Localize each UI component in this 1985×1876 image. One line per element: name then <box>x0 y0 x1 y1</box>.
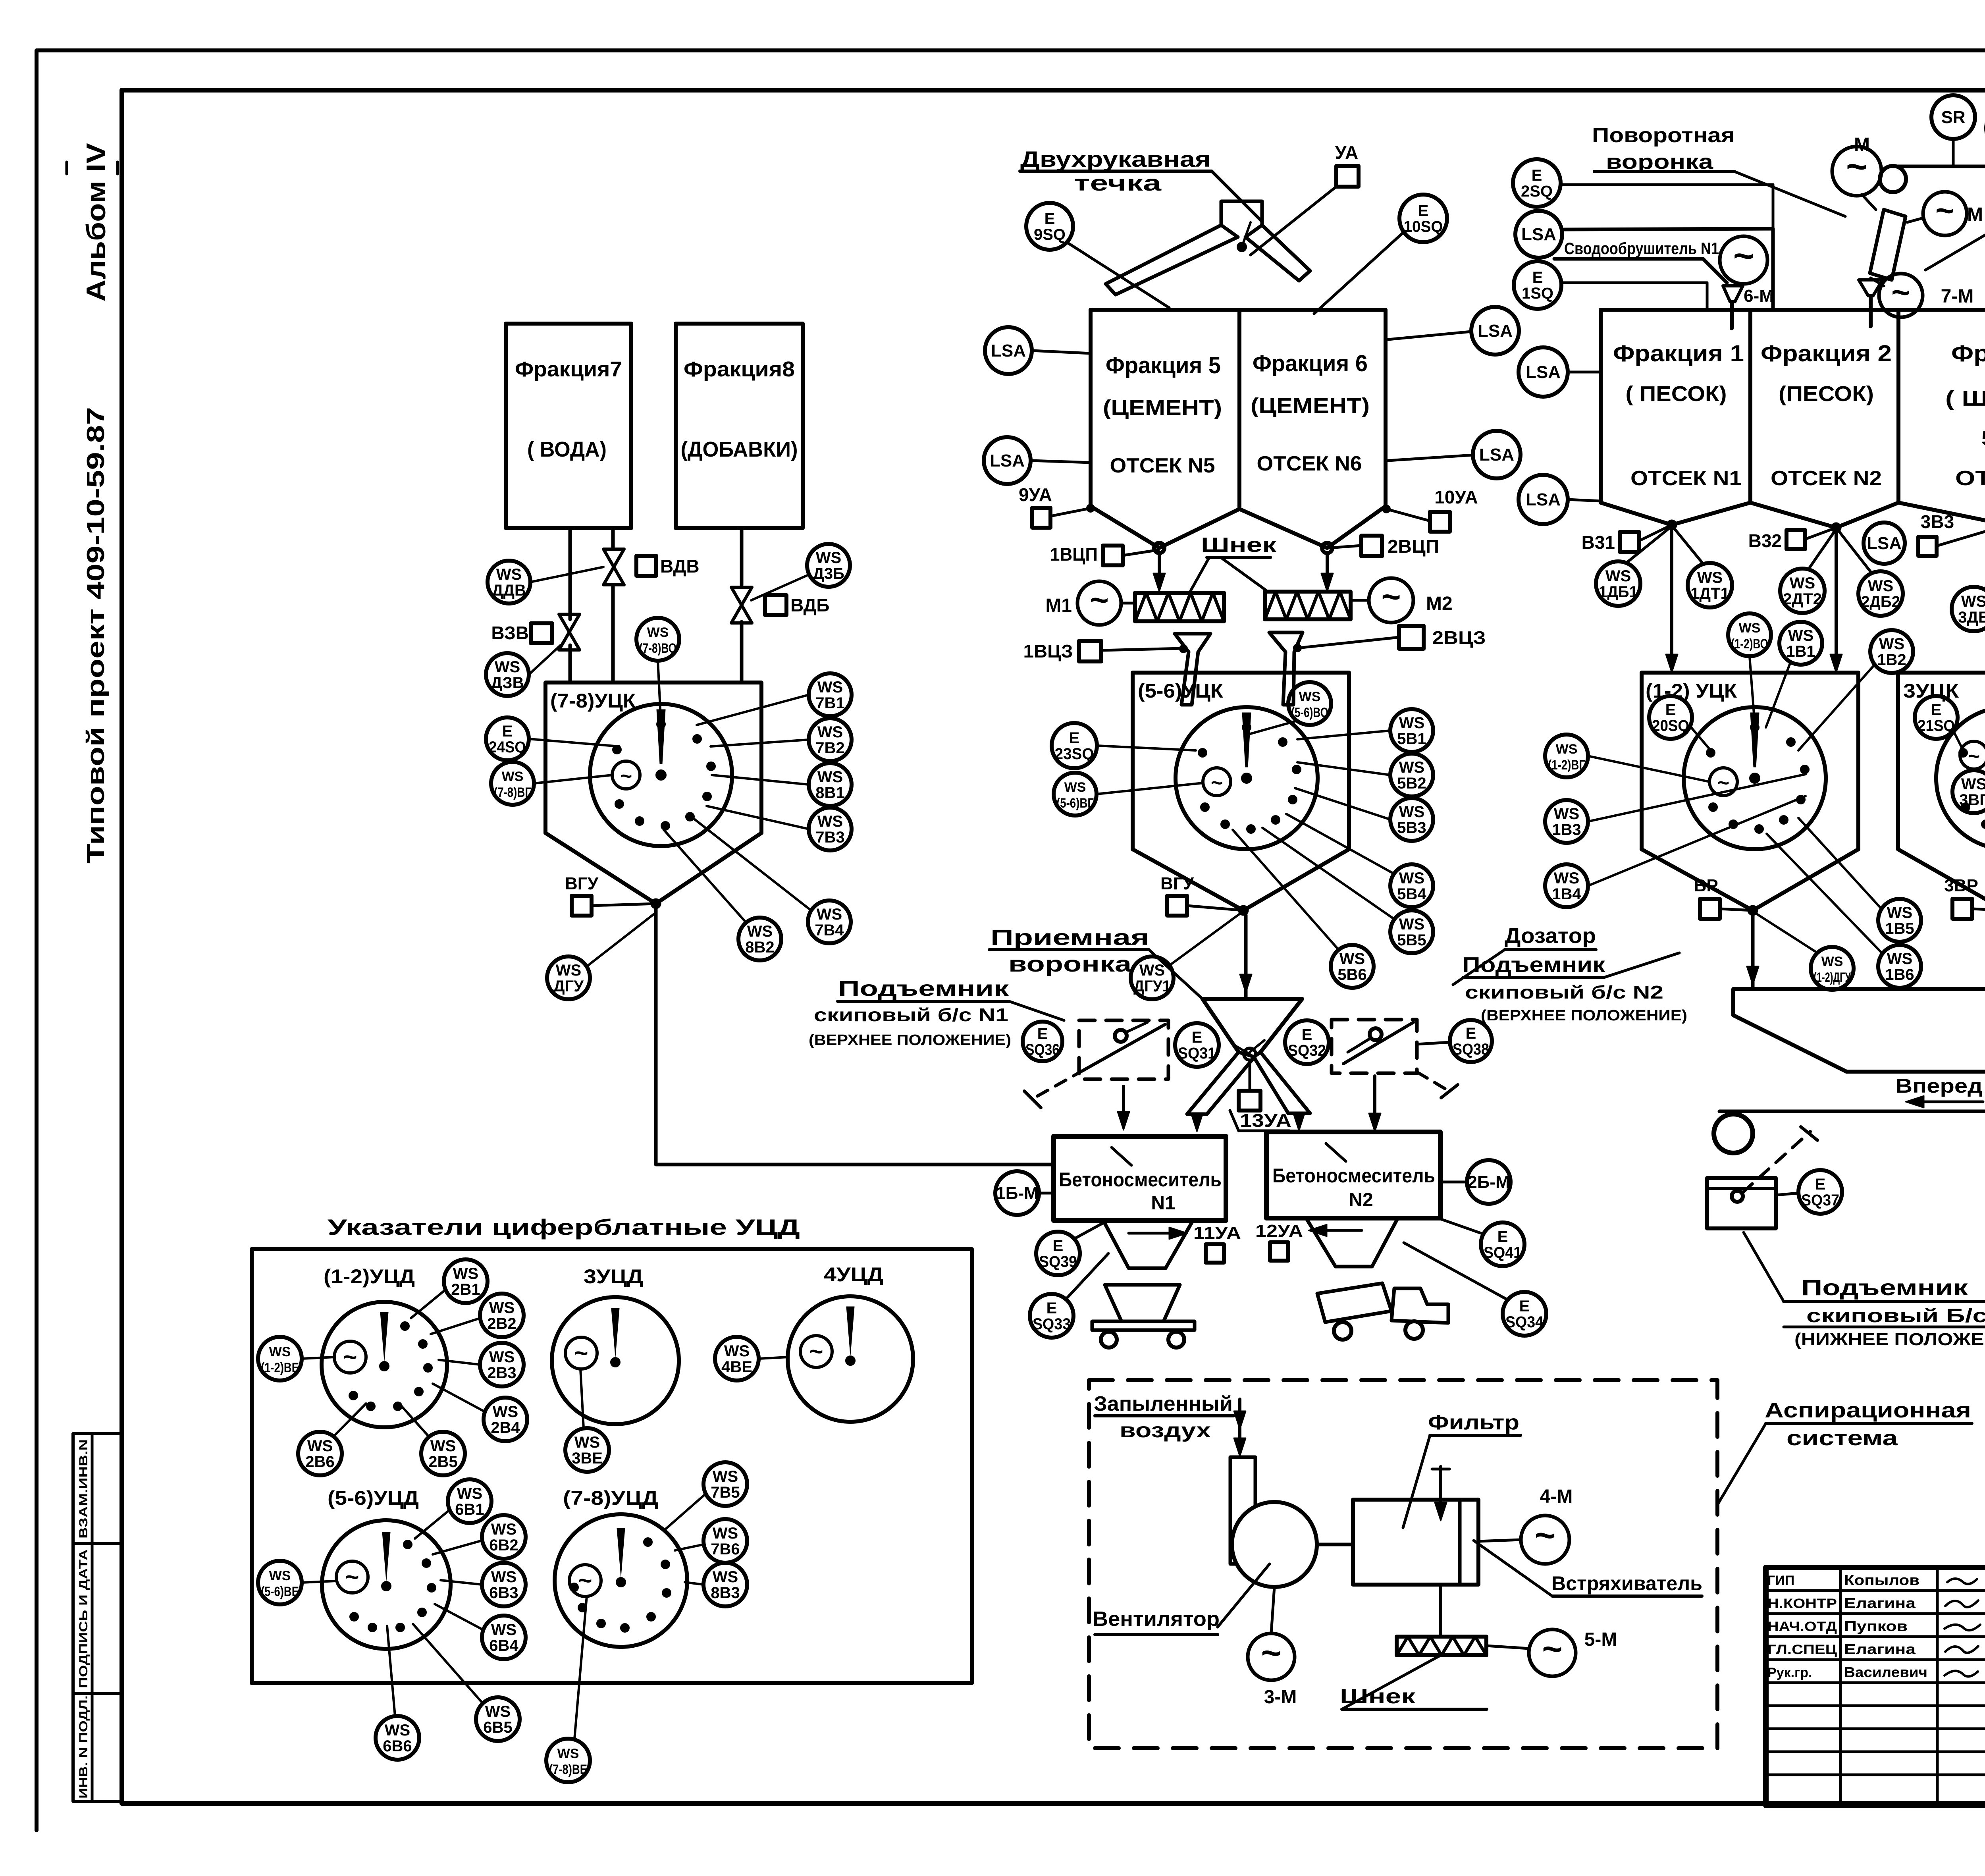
svg-text:12УА: 12УА <box>1255 1221 1303 1241</box>
box 9УА <box>1019 484 1095 528</box>
svg-text:Вентилятор: Вентилятор <box>1093 1608 1220 1631</box>
box 1ВЦЗ <box>1023 641 1183 661</box>
svg-text:ОТСЕК N3: ОТСЕК N3 <box>1955 467 1985 490</box>
svg-text:М2: М2 <box>1426 593 1453 614</box>
callout WS 2В4 <box>433 1384 527 1441</box>
callout WS 7В1 <box>697 673 852 725</box>
svg-text:воронка: воронка <box>1008 951 1132 976</box>
callout WS (1-2)ВО <box>1728 613 1771 724</box>
svg-text:Елагина: Елагина <box>1844 1641 1916 1657</box>
dusty air duct <box>1230 1399 1255 1564</box>
callout WS 2В2 <box>431 1294 524 1337</box>
motor 3-М <box>1248 1587 1297 1708</box>
callout WS 1В1 <box>1766 622 1822 727</box>
svg-text:5В3: 5В3 <box>1397 819 1426 837</box>
callout WS 1В2 <box>1798 630 1913 750</box>
label Вентилятор <box>1093 1564 1270 1635</box>
svg-text:7В3: 7В3 <box>815 829 844 846</box>
svg-text:В32: В32 <box>1748 530 1782 551</box>
svg-text:скиповый б/с N1: скиповый б/с N1 <box>814 1005 1008 1025</box>
svg-text:WS: WS <box>817 906 842 923</box>
callout WS (1-2)ДГУ <box>1756 913 1854 990</box>
svg-text:WS: WS <box>1299 689 1321 704</box>
svg-text:LSA: LSA <box>1867 534 1902 553</box>
callout WS 5В6 <box>1233 830 1374 988</box>
svg-text:E: E <box>1302 1026 1312 1043</box>
svg-text:WS: WS <box>1887 950 1912 968</box>
callout E SQ37 <box>1776 1170 1842 1214</box>
callout WS 2ДБ2 <box>1839 531 1903 616</box>
callout WS 7В6 <box>675 1519 747 1563</box>
svg-text:LSA: LSA <box>990 451 1025 470</box>
callout WS (1-2)ВГ <box>1545 735 1709 782</box>
svg-text:WS: WS <box>457 1485 482 1502</box>
leader УА to chute <box>1251 187 1336 255</box>
svg-text:Дозатор: Дозатор <box>1505 924 1596 948</box>
callout E 20SQ <box>1649 696 1711 750</box>
dosing unit (7-8)УЦК hopper and dial <box>545 683 761 908</box>
svg-text:LSA: LSA <box>1521 225 1556 244</box>
dial 4УЦД <box>788 1263 913 1422</box>
svg-text:~: ~ <box>1381 578 1401 615</box>
callout WS 5В2 <box>1297 754 1433 796</box>
svg-text:НАЧ.ОТД: НАЧ.ОТД <box>1767 1619 1837 1634</box>
box 11УА <box>1193 1223 1241 1263</box>
callout WS 4ВЕ <box>715 1337 788 1380</box>
box 13УА <box>1230 1060 1291 1131</box>
svg-text:Шнек: Шнек <box>1201 534 1277 557</box>
svg-text:WS: WS <box>1139 962 1165 979</box>
svg-text:(1-2)ВЕ: (1-2)ВЕ <box>261 1360 299 1375</box>
svg-text:6В2: 6В2 <box>489 1537 518 1554</box>
motor M with label <box>1832 134 1881 196</box>
svg-text:E: E <box>1046 1300 1057 1317</box>
callout WS 1ДТ1 <box>1675 529 1732 607</box>
callout WS 1В4 <box>1545 796 1806 907</box>
callout LSA h6 upper <box>1388 307 1519 355</box>
svg-text:WS: WS <box>1790 575 1815 592</box>
callout WS 8В3 <box>685 1563 747 1606</box>
svg-text:7В1: 7В1 <box>815 694 844 712</box>
svg-text:E: E <box>1037 1025 1048 1043</box>
svg-text:ВЗВ: ВЗВ <box>491 623 529 643</box>
svg-text:WS: WS <box>647 625 669 640</box>
svg-text:Приемная: Приемная <box>991 925 1149 950</box>
fan to filter pipe <box>1317 1543 1353 1546</box>
callout 2Б-М <box>1440 1160 1511 1204</box>
callout WS 7В5 <box>664 1462 747 1531</box>
svg-text:Альбом IV: Альбом IV <box>81 143 111 302</box>
box ВГУ 5-6 <box>1160 874 1243 916</box>
svg-text:3УЦД: 3УЦД <box>584 1265 643 1288</box>
box 1ВЦП <box>1050 544 1158 565</box>
svg-text:Двухрукавная: Двухрукавная <box>1020 147 1211 172</box>
svg-text:WS: WS <box>489 1348 515 1366</box>
svg-text:WS: WS <box>495 658 520 676</box>
feeder left pulley <box>1714 1114 1753 1153</box>
mixer2 outlet funnel <box>1306 1218 1398 1267</box>
motor M right <box>1907 192 1983 235</box>
svg-text:Встряхиватель: Встряхиватель <box>1551 1572 1702 1595</box>
wire (1-2)УЦК apex to collecting funnel <box>1747 915 1759 989</box>
svg-text:E: E <box>1418 202 1429 220</box>
svg-text:WS: WS <box>1399 714 1424 732</box>
callout WS Д3Б <box>751 544 850 600</box>
box ЗВЗ <box>1918 511 1985 556</box>
svg-text:~: ~ <box>809 1338 823 1365</box>
callout WS 5В4 <box>1286 814 1433 907</box>
callout E 21SQ <box>1915 696 1963 750</box>
svg-text:WS: WS <box>747 923 773 940</box>
УЦД block box <box>252 1249 972 1683</box>
svg-text:Д3Б: Д3Б <box>813 565 844 582</box>
box ВГУ left <box>565 874 656 916</box>
callout WS 1В6 <box>1767 834 1921 988</box>
node hopper5 apex <box>1153 543 1165 592</box>
callout E SQ36 <box>1023 1022 1062 1061</box>
svg-text:E: E <box>1519 1298 1530 1315</box>
svg-text:Фильтр: Фильтр <box>1428 1411 1519 1434</box>
svg-text:(ЦЕМЕНТ): (ЦЕМЕНТ) <box>1103 396 1222 420</box>
callout E 10SQ <box>1314 195 1447 314</box>
callout WS (7-8)ВГ <box>491 762 612 805</box>
box 2ВЦП <box>1329 536 1439 557</box>
svg-text:Запыленный: Запыленный <box>1094 1392 1233 1415</box>
svg-text:Василевич: Василевич <box>1844 1664 1927 1680</box>
motor 7-М <box>1871 274 1973 317</box>
motor М1 <box>1045 581 1135 625</box>
skip dashed box right <box>1332 1020 1458 1098</box>
svg-text:13УА: 13УА <box>1240 1110 1291 1131</box>
svg-text:2ДБ2: 2ДБ2 <box>1861 593 1900 611</box>
svg-text:1В6: 1В6 <box>1885 966 1914 983</box>
svg-text:WS: WS <box>491 1568 516 1586</box>
svg-text:21SQ: 21SQ <box>1918 717 1955 735</box>
svg-text:E: E <box>1931 701 1942 719</box>
callout WS 2ДТ2 <box>1780 532 1834 613</box>
callout WS ДЗВ <box>486 645 561 696</box>
svg-text:8В1: 8В1 <box>815 784 844 802</box>
svg-text:Бетоносмеситель: Бетоносмеситель <box>1059 1168 1222 1191</box>
svg-text:Фракция 3: Фракция 3 <box>1951 341 1985 366</box>
callout E SQ39 <box>1036 1220 1108 1275</box>
svg-text:~: ~ <box>1968 745 1980 768</box>
callout WS 2В6 <box>298 1404 366 1475</box>
svg-text:2ВЦЗ: 2ВЦЗ <box>1432 627 1486 648</box>
svg-text:WS: WS <box>269 1344 291 1359</box>
svg-text:Фракция8: Фракция8 <box>684 357 795 381</box>
label Дозатор <box>1453 924 1596 985</box>
svg-text:2ВЦП: 2ВЦП <box>1388 536 1439 557</box>
callout WS 5В5 <box>1262 828 1433 953</box>
dump truck <box>1317 1283 1448 1340</box>
valve ВДВ <box>603 549 700 585</box>
svg-text:WS: WS <box>1605 567 1631 585</box>
svg-text:~: ~ <box>1090 582 1109 618</box>
callout WS 6В1 <box>415 1479 491 1539</box>
svg-text:2В6: 2В6 <box>305 1453 334 1471</box>
svg-text:ГИП: ГИП <box>1767 1573 1794 1588</box>
svg-text:1SQ: 1SQ <box>1522 285 1553 302</box>
svg-text:WS: WS <box>574 1434 600 1451</box>
svg-text:ВР.: ВР. <box>1694 876 1721 895</box>
svg-text:WS: WS <box>307 1437 333 1455</box>
box УА <box>1335 142 1359 187</box>
svg-text:(1-2)ВО: (1-2)ВО <box>1731 636 1768 652</box>
svg-text:LSA: LSA <box>1479 445 1514 465</box>
svg-text:(ВЕРХНЕЕ ПОЛОЖЕНИЕ): (ВЕРХНЕЕ ПОЛОЖЕНИЕ) <box>1481 1007 1687 1024</box>
svg-text:WS: WS <box>1961 593 1985 610</box>
svg-text:2ДТ2: 2ДТ2 <box>1783 590 1822 608</box>
motor 6-М <box>1720 236 1774 328</box>
callout LSA h3 <box>1864 523 1905 564</box>
callout LSA h6 lower <box>1388 431 1521 478</box>
svg-text:10УА: 10УА <box>1434 487 1478 507</box>
wire (5-6)УЦК apex to receiving funnel <box>1240 915 1252 999</box>
svg-text:8В3: 8В3 <box>711 1584 740 1602</box>
box 3ВР <box>1944 876 1985 919</box>
svg-text:7В5: 7В5 <box>711 1484 740 1501</box>
svg-text:SQ36: SQ36 <box>1025 1041 1060 1059</box>
svg-text:5В1: 5В1 <box>1397 730 1426 748</box>
svg-text:WS: WS <box>385 1722 410 1739</box>
svg-text:WS: WS <box>1554 870 1579 887</box>
gate flap 2 <box>1269 632 1303 705</box>
svg-text:1В5: 1В5 <box>1885 920 1914 937</box>
callout WS (5-6)ВО <box>1251 682 1331 734</box>
svg-text:~: ~ <box>1935 193 1954 229</box>
svg-text:В31: В31 <box>1582 532 1615 553</box>
svg-text:N1: N1 <box>1151 1193 1175 1214</box>
label Фильтр <box>1403 1411 1521 1528</box>
svg-text:Вперед: Вперед <box>1895 1075 1983 1097</box>
callout 1Б-М <box>995 1171 1054 1215</box>
svg-text:4ВЕ: 4ВЕ <box>721 1358 752 1376</box>
label Подъемник скиповый N2 верхнее <box>1462 953 1687 1024</box>
box 10УА <box>1382 487 1478 532</box>
hopper Фракция 1 (ПЕСОК) <box>1601 310 1750 525</box>
mixer Бетоносмеситель N2 <box>1266 1132 1440 1218</box>
callout WS 2В5 <box>401 1406 465 1475</box>
svg-text:SQ33: SQ33 <box>1033 1315 1071 1333</box>
title block outer <box>1766 1568 1985 1805</box>
svg-text:WS: WS <box>1879 635 1904 653</box>
svg-text:20SQ: 20SQ <box>1652 717 1689 735</box>
svg-text:2В5: 2В5 <box>428 1453 457 1471</box>
svg-text:7В6: 7В6 <box>711 1541 740 1558</box>
svg-text:М1: М1 <box>1045 595 1072 616</box>
svg-text:WS: WS <box>713 1568 738 1586</box>
svg-text:WS: WS <box>556 962 581 979</box>
svg-text:WS: WS <box>1739 621 1761 636</box>
svg-text:6В5: 6В5 <box>483 1719 512 1736</box>
callout WS 2В1 <box>411 1259 488 1318</box>
wire (7-8)УЦК apex to mixers <box>656 908 1054 1165</box>
svg-text:ИНВ. N ПОДЛ.: ИНВ. N ПОДЛ. <box>77 1695 90 1799</box>
svg-text:6В1: 6В1 <box>455 1501 484 1518</box>
receiving funnel hourglass <box>1187 999 1310 1132</box>
svg-text:WS: WS <box>491 1521 516 1538</box>
callout SR <box>1931 95 1975 166</box>
callout E SQ41 <box>1440 1219 1524 1266</box>
callout WS 3ДБ <box>1952 530 1985 631</box>
svg-text:9SQ: 9SQ <box>1034 226 1066 243</box>
svg-text:2SQ: 2SQ <box>1521 183 1553 200</box>
svg-text:скиповый Б/с N1: скиповый Б/с N1 <box>1806 1305 1985 1327</box>
svg-text:~: ~ <box>1733 236 1754 276</box>
svg-text:WS: WS <box>817 813 843 830</box>
svg-text:Типовой проект 409-10-59.87: Типовой проект 409-10-59.87 <box>82 407 110 864</box>
screw conveyor 2 <box>1265 592 1351 619</box>
svg-text:SQ38: SQ38 <box>1453 1041 1489 1058</box>
svg-text:11УА: 11УА <box>1193 1223 1241 1243</box>
svg-text:М: М <box>1854 134 1870 155</box>
label Поворотная воронка <box>1592 124 1845 216</box>
svg-text:~: ~ <box>620 765 632 788</box>
label Двухрукавная течка <box>1020 147 1262 222</box>
callout E SQ31 <box>1175 1023 1219 1067</box>
svg-text:WS: WS <box>1399 803 1424 821</box>
svg-text:ВДБ: ВДБ <box>790 595 829 615</box>
svg-text:WS: WS <box>1961 775 1985 793</box>
svg-text:ОТСЕК N2: ОТСЕК N2 <box>1771 467 1882 490</box>
callout E 24SQ <box>486 717 619 760</box>
pipe Фракция8 to (7-8)УЦК <box>740 528 744 683</box>
svg-text:WS: WS <box>1868 577 1893 595</box>
dosing unit (5-6)УЦК hopper and dial <box>1133 673 1349 915</box>
valve ВДБ <box>731 587 829 623</box>
band Сводообрушитель N1 <box>1554 229 1773 310</box>
svg-text:ВДВ: ВДВ <box>660 556 700 576</box>
left strip text ВЗАМ.ИНВ.N <box>77 1439 90 1539</box>
svg-text:Елагина: Елагина <box>1844 1595 1916 1611</box>
svg-text:Бетоносмеситель: Бетоносмеситель <box>1272 1165 1435 1187</box>
svg-text:1Б-М: 1Б-М <box>996 1184 1038 1203</box>
svg-text:2В1: 2В1 <box>451 1281 480 1298</box>
svg-text:5-М: 5-М <box>1584 1629 1617 1650</box>
svg-text:(5-6)УЦД: (5-6)УЦД <box>328 1487 419 1509</box>
svg-text:(7-8)УЦК: (7-8)УЦК <box>550 690 636 712</box>
svg-text:Указатели циферблатные УЦД: Указатели циферблатные УЦД <box>328 1215 800 1240</box>
svg-text:WS: WS <box>1554 805 1579 823</box>
svg-text:3ВР: 3ВР <box>1944 876 1978 895</box>
label Встряхиватель <box>1474 1541 1702 1596</box>
dial (7-8)УЦД <box>555 1487 687 1647</box>
filter to screw pipe <box>1439 1585 1442 1637</box>
svg-text:5В6: 5В6 <box>1337 966 1366 983</box>
callout WS 1В5 <box>1798 818 1921 942</box>
svg-text:N2: N2 <box>1349 1190 1373 1211</box>
svg-text:2В4: 2В4 <box>491 1419 520 1436</box>
tank Фракция 8 (ДОБАВКИ) <box>676 324 803 528</box>
svg-text:E: E <box>1192 1029 1203 1046</box>
svg-text:WS: WS <box>496 566 522 583</box>
dosing unit 3УЦК hopper and dial <box>1898 673 1985 915</box>
svg-text:(ДОБАВКИ): (ДОБАВКИ) <box>681 438 798 461</box>
left strip boxes <box>73 1434 123 1801</box>
svg-text:М: М <box>1967 204 1983 225</box>
svg-text:WS: WS <box>817 679 843 696</box>
sidebar text Альбом IV <box>67 143 118 302</box>
node hopper6 apex <box>1321 543 1333 592</box>
signatures <box>1945 1579 1980 1677</box>
svg-text:7В2: 7В2 <box>815 739 844 757</box>
label Шнек <box>1191 534 1277 591</box>
callout WS 5В1 <box>1297 709 1433 752</box>
gate flap 1 <box>1175 634 1210 705</box>
skip dashed box left <box>1024 1020 1168 1108</box>
svg-text:~: ~ <box>578 1567 592 1594</box>
svg-text:~: ~ <box>1891 274 1910 310</box>
callout WS 6В5 <box>413 1624 520 1741</box>
callout E SQ34 <box>1404 1243 1546 1336</box>
approval row ГЛ.СПЕЦ <box>1767 1641 1916 1657</box>
svg-text:1ДБ1: 1ДБ1 <box>1599 583 1638 601</box>
svg-text:WS: WS <box>493 1403 518 1421</box>
approval row ГИП <box>1767 1572 1919 1588</box>
pipe Фракция7 to (7-8)УЦК <box>570 528 613 683</box>
reversible feeder belt <box>1719 1110 1985 1113</box>
label Подъемник скиповый N1 нижнее <box>1744 1232 1985 1349</box>
svg-text:E: E <box>1532 167 1542 184</box>
svg-text:(7-8)ВО: (7-8)ВО <box>639 641 676 656</box>
svg-text:ВГУ: ВГУ <box>1160 874 1194 893</box>
svg-text:E: E <box>1532 269 1543 286</box>
svg-text:ВГУ: ВГУ <box>565 874 599 893</box>
svg-text:Сводообрушитель N1: Сводообрушитель N1 <box>1564 239 1719 258</box>
svg-text:3-М: 3-М <box>1264 1687 1297 1708</box>
svg-text:(ВЕРХНЕЕ ПОЛОЖЕНИЕ): (ВЕРХНЕЕ ПОЛОЖЕНИЕ) <box>809 1032 1011 1049</box>
callout E 9SQ <box>1026 203 1073 250</box>
svg-text:7В4: 7В4 <box>815 922 844 939</box>
svg-text:течка: течка <box>1074 170 1162 195</box>
tank Фракция 7 (ВОДА) <box>506 324 631 528</box>
svg-text:~: ~ <box>1542 1629 1562 1668</box>
svg-text:WS: WS <box>1339 950 1365 968</box>
approval row Н.КОНТР <box>1767 1595 1916 1611</box>
label Шнек aspiration <box>1340 1655 1487 1709</box>
svg-text:1В2: 1В2 <box>1877 651 1906 669</box>
chute outlet funnel <box>1859 280 1883 326</box>
callout WS 6В6 <box>376 1626 419 1760</box>
svg-text:23SQ: 23SQ <box>1055 745 1094 763</box>
svg-text:SQ34: SQ34 <box>1505 1313 1544 1331</box>
svg-text:ОТСЕК N6: ОТСЕК N6 <box>1257 452 1362 475</box>
svg-text:ВЗАМ.ИНВ.N: ВЗАМ.ИНВ.N <box>77 1439 90 1539</box>
svg-text:WS: WS <box>1887 904 1912 922</box>
callout WS ДГУ <box>547 913 655 999</box>
label Сводообрушитель N2 <box>1925 173 1985 270</box>
svg-text:Н.КОНТР: Н.КОНТР <box>1767 1596 1837 1611</box>
hopper Фракция 5 <box>1091 310 1239 548</box>
svg-text:6В3: 6В3 <box>489 1584 518 1602</box>
callout E 1SQ <box>1514 261 1707 310</box>
svg-text:1ДТ1: 1ДТ1 <box>1690 585 1729 602</box>
callout LSA h5 upper <box>985 327 1091 374</box>
svg-text:1ВЦП: 1ВЦП <box>1050 544 1098 565</box>
svg-text:5В4: 5В4 <box>1397 885 1426 903</box>
svg-text:SQ39: SQ39 <box>1039 1253 1077 1271</box>
svg-text:WS: WS <box>1556 742 1578 757</box>
svg-text:E: E <box>1497 1228 1508 1246</box>
callout E SQ32 <box>1285 1020 1329 1064</box>
motor 4-М <box>1478 1515 1569 1564</box>
motor 5-М <box>1486 1629 1617 1676</box>
svg-text:5В2: 5В2 <box>1397 775 1426 792</box>
label Аспирационная система <box>1717 1398 1972 1505</box>
svg-text:SR: SR <box>1941 108 1965 127</box>
svg-text:~: ~ <box>1534 1515 1555 1556</box>
